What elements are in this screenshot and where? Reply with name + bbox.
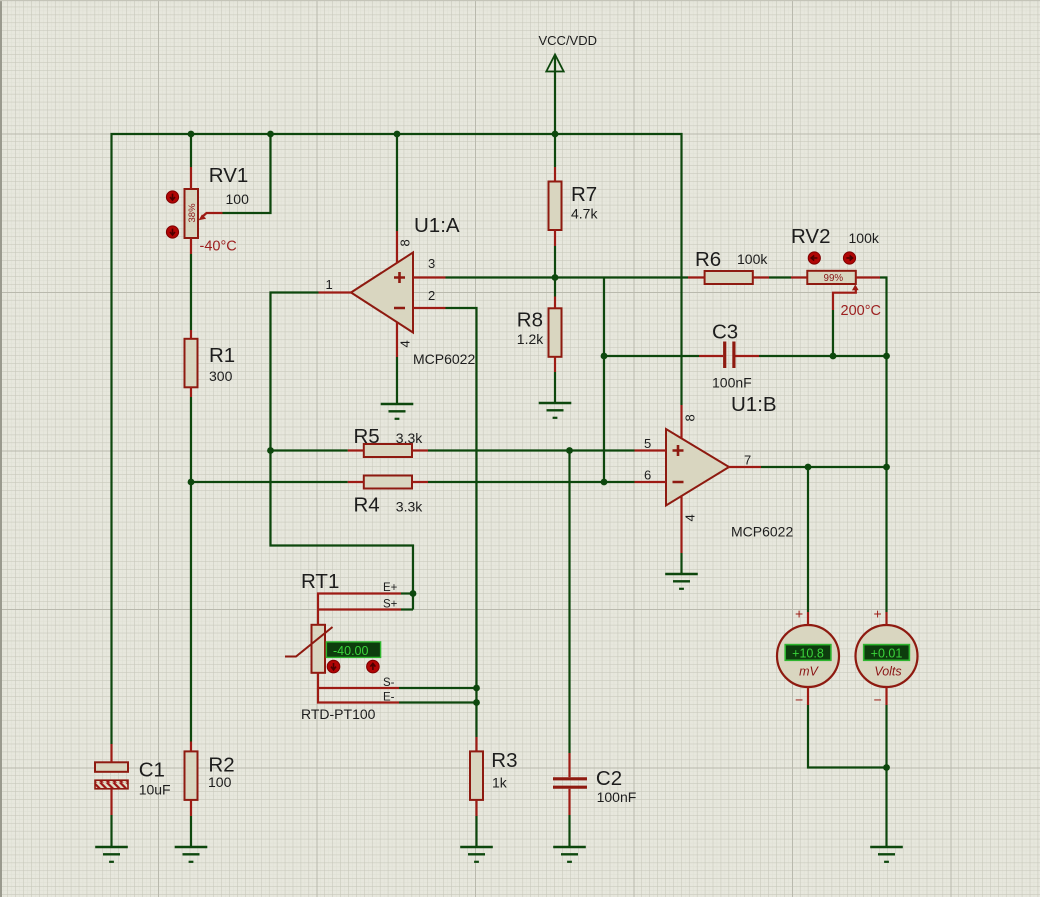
C2 pin bottom — [568, 789, 570, 815]
Volts pin + — [885, 612, 887, 626]
svg-text:S+: S+ — [383, 599, 398, 611]
R1 pin bottom — [190, 387, 192, 397]
mV pin + — [807, 612, 809, 626]
wire RV2 right to feedback column — [880, 278, 887, 613]
wire top VCC rail with left drop to C1 and right drop to U1:B pin8 — [112, 134, 682, 744]
wire U1:A output to R5-left and down to RT1 E+/S+ — [271, 293, 414, 610]
svg-text:R6: R6 — [695, 248, 721, 271]
wire RV2 wiper drop — [832, 310, 834, 356]
ground R8 — [539, 403, 572, 418]
junction R7/R8/pin3 — [552, 274, 559, 281]
pin number 5 — [644, 436, 651, 451]
junction E+ node — [410, 590, 417, 597]
svg-text:+0.01: +0.01 — [871, 646, 903, 660]
pin number 3 — [428, 256, 435, 271]
wire R7/R8 mid node — [554, 246, 556, 297]
svg-text:100k: 100k — [849, 230, 880, 246]
potentiometer RV2 — [791, 225, 881, 319]
RTD sensor RT1 — [285, 570, 381, 722]
pin number 4 — [398, 340, 413, 347]
junction meter return — [883, 764, 890, 771]
R6 pin right — [753, 276, 769, 278]
wire C3 row right — [759, 355, 887, 357]
wire R6 to RV2 link — [769, 276, 791, 278]
C2 pin top — [568, 753, 570, 777]
svg-text:100: 100 — [208, 774, 232, 790]
capacitor C1 — [95, 758, 171, 797]
RV1 pin bottom — [190, 238, 192, 254]
wire R8 to ground — [554, 372, 556, 403]
svg-text:200°C: 200°C — [841, 303, 881, 319]
resistor R2 — [185, 751, 235, 800]
resistor R5 — [354, 425, 424, 457]
svg-text:E-: E- — [383, 692, 395, 704]
svg-text:4.7k: 4.7k — [571, 206, 598, 222]
C3 pin left — [699, 355, 723, 357]
wire R4 row right to U1:B pin6 — [428, 481, 635, 483]
svg-text:C3: C3 — [712, 321, 738, 344]
junction output-volts column — [883, 464, 890, 471]
svg-text:+10.8: +10.8 — [792, 646, 824, 660]
svg-text:R8: R8 — [517, 309, 543, 332]
svg-text:U1:A: U1:A — [414, 214, 460, 237]
svg-text:+: + — [874, 606, 882, 622]
junction rail-RV1 — [188, 131, 195, 138]
ground R2 — [175, 847, 208, 862]
op-amp U1:B — [666, 393, 793, 540]
R5 pin left — [348, 449, 364, 451]
svg-text:RV1: RV1 — [209, 164, 249, 187]
pin number 8 — [398, 239, 413, 246]
svg-text:100: 100 — [226, 191, 250, 207]
wire RV1 to R1 — [190, 254, 192, 330]
pin number 7 — [744, 453, 751, 468]
label S- — [383, 677, 395, 689]
junction wiper-C3 row — [830, 353, 837, 360]
pin number 4 (U1:B) — [683, 514, 698, 521]
svg-text:10uF: 10uF — [139, 781, 171, 797]
resistor R6 — [695, 248, 768, 284]
svg-text:R4: R4 — [354, 494, 380, 517]
svg-text:99%: 99% — [824, 273, 844, 284]
mV pin - — [807, 687, 809, 706]
RT1 pin E+ — [318, 594, 401, 626]
U1:A pin 3 (+) — [413, 276, 446, 278]
RT1 pin S+ — [318, 608, 401, 610]
wire C3 row left — [604, 355, 699, 357]
svg-text:3.3k: 3.3k — [396, 430, 423, 446]
wire S- to pin2 column — [399, 687, 477, 689]
wire R5 row left — [271, 449, 348, 451]
svg-text:+: + — [795, 606, 803, 622]
pin number 6 — [644, 468, 651, 483]
junction output-mV — [805, 464, 812, 471]
junction rail-wiper — [267, 131, 274, 138]
RV2 pin left — [791, 276, 807, 278]
wire C2 to ground — [568, 815, 570, 847]
svg-text:R7: R7 — [571, 183, 597, 206]
R2 pin top — [190, 742, 192, 752]
svg-text:38%: 38% — [187, 203, 198, 223]
junction R5/C2/pin5 — [566, 447, 573, 454]
ground R3 — [460, 847, 493, 862]
RV2 pin right — [856, 276, 880, 278]
svg-text:R1: R1 — [209, 344, 235, 367]
wire U1:B output row — [761, 466, 887, 468]
svg-text:Volts: Volts — [874, 665, 901, 679]
op-amp U1:A — [351, 214, 475, 367]
wire U1:A pin2 down to S-/E-/R3 — [446, 308, 477, 737]
resistor R1 — [185, 339, 236, 388]
svg-text:-40°C: -40°C — [200, 239, 237, 255]
U1:A pin 2 (-) — [413, 307, 446, 309]
wire U1:A pin3 to R7/R8 node — [446, 276, 556, 278]
wire Volts meter negative to ground — [885, 705, 887, 847]
junction R4/pin6/C3 — [601, 479, 608, 486]
resistor R4 — [354, 476, 424, 517]
svg-text:S-: S- — [383, 677, 395, 689]
power symbol VCC/VDD — [539, 33, 598, 72]
svg-text:C2: C2 — [596, 767, 622, 790]
junction rail-pin8A — [394, 131, 401, 138]
svg-text:100nF: 100nF — [712, 375, 752, 391]
U1:A pin 1 (output) — [319, 291, 353, 293]
pin number 1 — [326, 277, 333, 292]
wire R1 to R2 — [190, 397, 192, 742]
U1:A pin 4 (V-) — [396, 323, 398, 358]
svg-text:7: 7 — [744, 453, 751, 468]
RV2 wiper arrow — [833, 284, 859, 310]
svg-text:3.3k: 3.3k — [396, 499, 423, 515]
R1 pin top — [190, 330, 192, 339]
svg-text:−: − — [874, 692, 882, 708]
R6 pin left — [688, 276, 705, 278]
ground C2 — [553, 847, 586, 862]
U1:B pin 7 (output) — [728, 466, 761, 468]
svg-text:-40.00: -40.00 — [333, 644, 368, 658]
svg-text:C1: C1 — [139, 758, 165, 781]
wire R2 to ground — [190, 816, 192, 847]
svg-text:U1:B: U1:B — [731, 393, 777, 416]
svg-text:R3: R3 — [491, 749, 517, 772]
label E- — [383, 692, 395, 704]
svg-text:100k: 100k — [737, 251, 768, 267]
wire E- to pin2 column — [399, 701, 477, 703]
junction R4-left — [188, 479, 195, 486]
RT1 pin S- — [318, 673, 399, 689]
ground C1 — [95, 847, 128, 862]
C1 pin bottom — [110, 789, 112, 815]
ground U1:B pin4 — [665, 574, 698, 589]
svg-text:8: 8 — [683, 414, 698, 421]
junction E- node — [473, 699, 480, 706]
junction C3-left node — [601, 353, 608, 360]
junction rail-VCC — [552, 131, 559, 138]
wire mV meter feed — [807, 467, 809, 612]
junction S- node — [473, 685, 480, 692]
U1:B pin 6 (-) — [635, 481, 667, 483]
svg-text:8: 8 — [398, 239, 413, 246]
resistor R8 — [517, 308, 562, 357]
svg-text:100nF: 100nF — [597, 789, 637, 805]
label S+ — [383, 599, 398, 611]
wire U1:A pin4 to ground — [396, 357, 398, 404]
U1:A pin 8 (V+) — [396, 231, 398, 264]
capacitor C2 — [553, 767, 636, 805]
svg-text:E+: E+ — [383, 582, 398, 594]
svg-text:R5: R5 — [354, 425, 380, 448]
R7 pin top — [554, 167, 556, 182]
svg-text:RTD-PT100: RTD-PT100 — [301, 706, 376, 722]
svg-text:mV: mV — [799, 665, 819, 679]
wire R7 top feed — [554, 134, 556, 167]
RV1 wiper arrow — [199, 213, 223, 220]
svg-text:2: 2 — [428, 288, 435, 303]
voltmeter Volts — [856, 606, 918, 708]
svg-text:300: 300 — [209, 368, 233, 384]
U1:B pin 5 (+) — [635, 449, 667, 451]
R4 pin right — [412, 481, 428, 483]
wire RV1 top feed — [190, 134, 192, 167]
U1:B pin 4 (V-) — [680, 496, 682, 553]
svg-text:1.2k: 1.2k — [517, 331, 544, 347]
wire VCC stem — [554, 55, 556, 134]
svg-text:5: 5 — [644, 436, 651, 451]
RV1 pin top — [190, 167, 192, 189]
label E+ — [383, 582, 398, 594]
R2 pin bottom — [190, 800, 192, 816]
junction C3-right node — [883, 353, 890, 360]
resistor R7 — [549, 182, 599, 231]
svg-text:4: 4 — [398, 340, 413, 347]
R4 pin left — [348, 481, 364, 483]
wire mV meter negative return — [808, 705, 887, 768]
wire U1:A pin8 supply — [396, 134, 398, 231]
svg-text:4: 4 — [683, 514, 698, 521]
svg-text:MCP6022: MCP6022 — [413, 351, 475, 367]
svg-text:3: 3 — [428, 256, 435, 271]
ground U1:A pin4 — [381, 404, 414, 419]
resistor R3 — [470, 749, 518, 800]
potentiometer RV1 — [166, 164, 249, 255]
U1:B pin 8 (V+) — [680, 405, 682, 439]
wire RV1 wiper to rail — [223, 134, 271, 213]
R5 pin right — [412, 449, 428, 451]
wire pin3 node to R6 — [555, 276, 688, 278]
svg-text:RV2: RV2 — [791, 225, 831, 248]
svg-text:RT1: RT1 — [301, 570, 339, 593]
wire R5 row right to U1:B pin5 — [428, 449, 635, 451]
R3 pin top — [475, 737, 477, 751]
wire R3 to ground — [475, 816, 477, 847]
wire S+ wire end — [401, 608, 413, 610]
Volts pin - — [885, 687, 887, 706]
svg-text:−: − — [795, 692, 803, 708]
pin number 2 — [428, 288, 435, 303]
wire E+ wire end — [401, 592, 413, 594]
wire C2 top feed — [568, 451, 570, 754]
ground meters — [870, 847, 903, 862]
R8 pin bottom — [554, 356, 556, 372]
svg-text:MCP6022: MCP6022 — [731, 524, 793, 540]
C3 pin right — [736, 355, 760, 357]
capacitor C3 — [712, 321, 752, 391]
R3 pin bottom — [475, 800, 477, 816]
pin number 8 (U1:B) — [683, 414, 698, 421]
wire R4 row left — [191, 481, 348, 483]
junction R5-left — [267, 447, 274, 454]
svg-text:1: 1 — [326, 277, 333, 292]
wire C1 to ground — [110, 815, 112, 847]
C1 pin top — [110, 744, 112, 762]
svg-text:6: 6 — [644, 468, 651, 483]
svg-text:1k: 1k — [492, 774, 508, 790]
voltmeter mV — [777, 606, 839, 708]
wire pin6 node up to C3 row — [603, 278, 605, 483]
R7 pin bottom — [554, 230, 556, 247]
wire U1:B pin4 to ground — [680, 553, 682, 574]
R8 pin top — [554, 297, 556, 309]
RT1 pin E- — [318, 688, 399, 703]
svg-text:VCC/VDD: VCC/VDD — [539, 33, 598, 48]
